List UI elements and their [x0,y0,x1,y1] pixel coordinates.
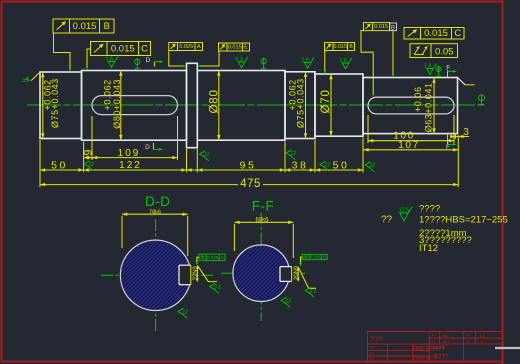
svg-text:C: C [454,28,461,39]
svg-text:12: 12 [183,310,189,316]
svg-text:1????HBS=217−255: 1????HBS=217−255 [419,214,508,225]
svg-text:1.6: 1.6 [339,58,347,64]
svg-text:-007: -007 [442,339,451,344]
svg-text:??: ?? [466,333,471,338]
svg-text:D-D: D-D [145,194,171,209]
svg-text:109: 109 [118,148,141,159]
svg-text:0.015: 0.015 [73,21,97,32]
svg-text:B: B [104,21,110,32]
svg-text:D: D [145,144,150,151]
svg-text:12: 12 [204,152,210,158]
svg-text:1:1: 1:1 [479,333,486,338]
svg-text:6.3: 6.3 [235,57,243,63]
svg-text:????: ???? [419,203,440,214]
svg-text:Ø80: Ø80 [209,89,221,113]
svg-text:3???: 3??? [434,353,449,360]
svg-text:Ø80+0.043: Ø80+0.043 [112,79,122,129]
svg-text:B: B [391,25,395,31]
svg-text:F: F [446,65,450,72]
svg-text:0.025: 0.025 [207,255,219,260]
svg-text:0.05: 0.05 [435,46,454,57]
svg-text:12: 12 [370,163,376,169]
svg-text:????: ???? [431,346,446,353]
svg-text:+0.06: +0.06 [413,86,423,112]
svg-text:95: 95 [240,159,257,171]
svg-text:0.025: 0.025 [310,255,322,260]
svg-text:C: C [141,43,148,54]
svg-text:3.2: 3.2 [214,285,221,291]
svg-text:A: A [197,44,201,50]
svg-text:??: ?? [431,333,436,338]
svg-text:78k6: 78k6 [149,209,161,215]
svg-text:??: ?? [431,339,436,344]
svg-text:0.015: 0.015 [424,28,448,39]
svg-text:???: ??? [370,335,383,344]
svg-text:9: 9 [83,149,95,155]
svg-text:12: 12 [286,299,292,305]
svg-text:38: 38 [292,159,309,171]
svg-text:3.2: 3.2 [310,289,317,295]
svg-text:0.015: 0.015 [374,24,388,30]
svg-text:??: ?? [369,346,375,351]
svg-text:Ø70: Ø70 [320,89,332,113]
svg-text:+0.062: +0.062 [42,79,52,110]
svg-text:IT12: IT12 [419,243,438,254]
svg-text:B: B [323,255,326,260]
svg-text:+0.062: +0.062 [103,79,113,110]
svg-text:0.015: 0.015 [111,43,135,54]
svg-text:0.025: 0.025 [179,44,193,50]
svg-text:1.6: 1.6 [105,56,113,62]
svg-text:+0.062: +0.062 [287,79,297,110]
svg-text:1.6: 1.6 [424,63,432,69]
svg-text:50: 50 [333,159,350,171]
svg-text:B: B [349,44,353,50]
svg-text:3: 3 [463,127,469,138]
svg-text:12: 12 [325,163,331,169]
svg-text:E: E [244,45,248,51]
svg-text:Ø63+0.041: Ø63+0.041 [424,83,434,133]
svg-text:F-F: F-F [252,198,275,213]
svg-text:A2: A2 [442,333,448,338]
svg-text:122: 122 [119,160,142,171]
svg-text:12: 12 [89,162,95,168]
svg-text:??: ?? [369,351,375,356]
svg-text:50: 50 [51,159,68,171]
svg-text:475: 475 [240,178,261,190]
svg-text:??: ?? [466,339,471,344]
svg-text:107: 107 [398,140,420,151]
svg-text:0.015: 0.015 [228,45,242,51]
svg-text:12: 12 [291,151,297,157]
svg-text:0.015: 0.015 [334,44,348,50]
svg-text:68k6: 68k6 [255,217,269,223]
svg-text:1.6: 1.6 [301,57,309,63]
svg-text:22N9: 22N9 [193,265,199,280]
svg-text:??: ?? [381,214,393,225]
svg-text:??: ?? [369,356,375,361]
svg-text:D: D [146,57,151,64]
